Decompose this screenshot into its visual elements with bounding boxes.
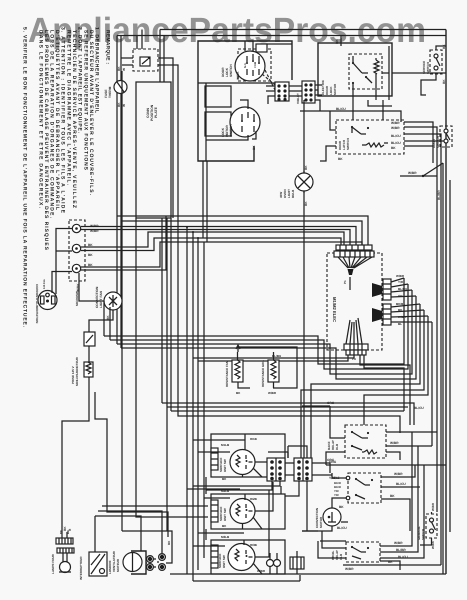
svg-text:LAMPE FOUR: LAMPE FOUR bbox=[51, 553, 55, 574]
grid connector C5 bbox=[294, 458, 312, 481]
svg-text:SWITCH: SWITCH bbox=[229, 64, 233, 77]
svg-text:BL/BR: BL/BR bbox=[437, 190, 441, 200]
burner unit 3 box bbox=[211, 540, 285, 574]
svg-text:BK: BK bbox=[222, 524, 227, 528]
wire fan bottom to fuse chain bbox=[89, 310, 113, 332]
wire bottom runs right bbox=[302, 531, 441, 565]
svg-text:THERM: THERM bbox=[108, 86, 112, 98]
svg-text:Y/15: Y/15 bbox=[329, 476, 336, 480]
svg-text:BK: BK bbox=[335, 39, 339, 44]
svg-text:RESISTANCE FAN: RESISTANCE FAN bbox=[225, 361, 229, 387]
svg-text:DANS LE FONCTIONNEMENT ET ETRE: DANS LE FONCTIONNEMENT ET ETRE DANGEREUX… bbox=[38, 30, 44, 209]
gradual wires bbox=[420, 512, 432, 545]
wire sweep a bbox=[104, 278, 404, 364]
wire left main L2 riser bbox=[120, 36, 122, 349]
resistor loop box bbox=[238, 347, 297, 388]
svg-text:W/BR: W/BR bbox=[431, 502, 435, 511]
terminal circle T3 bbox=[72, 264, 80, 272]
svg-text:W/BR: W/BR bbox=[391, 126, 400, 130]
wire staircase y505-516 bbox=[95, 506, 208, 553]
svg-text:BL/CU: BL/CU bbox=[396, 482, 406, 486]
svg-text:SWITCH: SWITCH bbox=[436, 136, 440, 148]
P3 fan wires bbox=[391, 304, 432, 322]
svg-text:5. VERIFIER LE BON FONCTIONNEM: 5. VERIFIER LE BON FONCTIONNEMENT DE L'A… bbox=[22, 27, 28, 328]
R2 wires left bbox=[332, 473, 346, 508]
P3 arrow mark bbox=[372, 308, 382, 322]
svg-text:BL/BR: BL/BR bbox=[396, 548, 406, 552]
svg-text:MOTOR: MOTOR bbox=[333, 83, 337, 95]
P2 arrow mark bbox=[372, 283, 382, 297]
top-right switch S1 bbox=[430, 50, 442, 74]
wire P3 nest returns bbox=[301, 304, 432, 458]
D2 contacts bbox=[351, 126, 353, 128]
wire mid bundle y403-411 right ends bbox=[162, 403, 414, 425]
wire T1 lines right bbox=[81, 227, 356, 247]
wire box A inner riser bbox=[205, 83, 207, 161]
wire riser x122 long bbox=[121, 71, 123, 531]
box B inner dashed relay bbox=[349, 54, 382, 89]
D2 resistor bbox=[362, 143, 388, 147]
svg-text:UNIT SW: UNIT SW bbox=[223, 459, 227, 472]
wire box A bottom risers bbox=[203, 161, 207, 242]
wire chain down to plug bbox=[62, 377, 89, 538]
resistor RES1 (fan resistance) bbox=[232, 360, 243, 382]
terminal circle T1 bbox=[72, 224, 80, 232]
burner unit 2 box bbox=[211, 494, 285, 529]
wire chain stub bbox=[88, 346, 90, 362]
svg-text:W/BK: W/BK bbox=[76, 283, 80, 292]
relay R1 (bake relay) dashed bbox=[345, 425, 386, 458]
svg-text:W/BR: W/BR bbox=[345, 567, 354, 571]
svg-text:BK: BK bbox=[388, 560, 393, 564]
wire bottom main bus bbox=[170, 574, 446, 581]
right edge switch S2 bbox=[440, 126, 452, 147]
wire bundle verticals bbox=[187, 227, 204, 581]
P2 fan wires bbox=[391, 278, 416, 297]
wire long run y111 bbox=[300, 111, 401, 122]
convection fan motor bbox=[104, 292, 122, 310]
svg-text:UNIT SW: UNIT SW bbox=[222, 555, 226, 568]
box B resistor bbox=[374, 58, 379, 88]
svg-text:SWITCH: SWITCH bbox=[229, 124, 233, 137]
svg-text:M1/M2 ELEC: M1/M2 ELEC bbox=[332, 297, 337, 322]
wire y406 run bbox=[302, 405, 330, 407]
svg-text:BK: BK bbox=[236, 391, 241, 395]
oven lamp assembly bbox=[56, 538, 73, 544]
wire bus drops to plate bbox=[137, 30, 164, 83]
wire S1 connections bbox=[421, 46, 446, 95]
burner1 wires bbox=[243, 434, 269, 477]
svg-text:BL/BU: BL/BU bbox=[272, 354, 281, 358]
svg-text:HI1B: HI1B bbox=[250, 437, 258, 441]
wire bundle turn x121 bbox=[121, 221, 362, 246]
svg-text:SWITCH: SWITCH bbox=[426, 62, 430, 74]
box A inner stacked rects bbox=[205, 86, 231, 107]
R2 wires right bbox=[381, 465, 420, 531]
terminal pair 1 bbox=[148, 557, 152, 561]
connector C1 bbox=[275, 82, 289, 101]
svg-text:BL/CU: BL/CU bbox=[336, 107, 346, 111]
svg-text:ORG: ORG bbox=[327, 458, 335, 462]
svg-text:N.O.: N.O. bbox=[244, 62, 247, 68]
wire D1 left stubs bbox=[121, 58, 133, 65]
micro switch box bbox=[84, 332, 95, 346]
svg-text:W/BR: W/BR bbox=[408, 171, 417, 175]
svg-text:MOTOR: MOTOR bbox=[319, 516, 323, 528]
svg-text:W/BR: W/BR bbox=[268, 391, 277, 395]
wire box B bottoms bbox=[353, 88, 392, 120]
fuse 125V zigzag bbox=[84, 362, 93, 377]
svg-text:P1: P1 bbox=[343, 280, 347, 284]
svg-text:W/BR: W/BR bbox=[394, 472, 403, 476]
fuse F1 circle bbox=[114, 81, 127, 94]
connector position plate rect bbox=[136, 82, 171, 218]
wire C1 to C2 bbox=[289, 86, 302, 96]
board side connector P3 bbox=[383, 304, 391, 325]
burner2 wires bbox=[243, 482, 274, 529]
svg-text:Y/R: Y/R bbox=[334, 493, 339, 497]
wire U2 top/bottom bbox=[206, 100, 256, 140]
box B contacts bbox=[352, 56, 354, 91]
oven light bulb bbox=[295, 173, 313, 191]
box B outline (oven relay box) bbox=[318, 43, 392, 96]
door lock switch dashed frame bbox=[238, 49, 271, 81]
svg-text:CORDON D'ALIMENTATION: CORDON D'ALIMENTATION bbox=[35, 284, 39, 323]
svg-text:BL: BL bbox=[398, 322, 402, 326]
grid connector C4 bbox=[267, 458, 285, 481]
C4 C5 bottom wires bbox=[193, 481, 307, 531]
burner unit 1 box bbox=[211, 434, 285, 477]
R1 wires left bbox=[326, 406, 345, 465]
svg-text:Y/R: Y/R bbox=[398, 280, 404, 284]
svg-text:BL/CU: BL/CU bbox=[398, 555, 408, 559]
svg-text:BK: BK bbox=[391, 146, 396, 150]
wire left main L1 riser bbox=[116, 36, 118, 345]
svg-text:SWITCH: SWITCH bbox=[346, 138, 350, 150]
wire bundle turn x117 bbox=[117, 216, 368, 246]
wire risers right of plate bbox=[173, 82, 178, 218]
svg-text:DLB: DLB bbox=[335, 443, 339, 450]
svg-text:BL/CU: BL/CU bbox=[337, 526, 347, 530]
board top connector bbox=[336, 245, 372, 250]
svg-text:W/BR: W/BR bbox=[390, 441, 399, 445]
wire sweep c bbox=[117, 290, 412, 374]
svg-text:LIGHT FAN: LIGHT FAN bbox=[99, 290, 103, 308]
dashed box D2 (door latch relay) bbox=[336, 120, 404, 154]
wire T3 lines right bbox=[81, 216, 362, 270]
burner switch 2 bbox=[230, 499, 255, 524]
svg-text:BK: BK bbox=[339, 505, 344, 509]
svg-text:MICROSW: MICROSW bbox=[75, 291, 79, 306]
svg-text:VIOLET: VIOLET bbox=[296, 93, 300, 104]
wire box B to border bbox=[392, 72, 446, 74]
board bottom connector bbox=[344, 344, 368, 350]
svg-text:BK: BK bbox=[59, 530, 63, 534]
wire C1 left stubs bbox=[198, 83, 275, 104]
board top funnel bbox=[338, 257, 372, 268]
wire C2 right stubs to box B bbox=[315, 85, 322, 111]
wire box B right inner bbox=[382, 46, 389, 100]
terminal block dashed bbox=[69, 220, 85, 281]
board bottom funnel bbox=[346, 318, 362, 344]
junction dots on bundle bbox=[186, 226, 188, 228]
small caps mid-bottom bbox=[267, 560, 274, 567]
svg-text:MINI-DISJONCTEUR: MINI-DISJONCTEUR bbox=[75, 356, 79, 386]
door lock switch circle U1 bbox=[235, 51, 265, 81]
wire D2 right outputs bbox=[404, 122, 445, 176]
svg-text:BK: BK bbox=[167, 540, 171, 545]
wire T2 lines right with jog bbox=[81, 232, 344, 251]
wire U1 to connector C1 dashed bbox=[262, 70, 275, 90]
svg-text:HI2B: HI2B bbox=[250, 497, 258, 501]
burner switch 1 bbox=[230, 450, 255, 475]
svg-text:W: W bbox=[122, 68, 126, 71]
svg-text:HI3B: HI3B bbox=[250, 543, 258, 547]
wire U1 top to box bbox=[245, 41, 292, 51]
R3 wires left bbox=[318, 531, 346, 558]
board side connector P2 bbox=[383, 279, 391, 300]
burner switch 3 bbox=[228, 544, 255, 571]
oven light switch box bbox=[89, 552, 107, 576]
svg-text:W/BR: W/BR bbox=[391, 121, 400, 125]
svg-text:SWITCH: SWITCH bbox=[421, 529, 425, 540]
M2 wires bbox=[302, 522, 348, 531]
svg-text:BL/CU: BL/CU bbox=[414, 406, 424, 410]
svg-text:ORG: ORG bbox=[327, 401, 335, 405]
dashed box D1 (door switch) bbox=[133, 49, 158, 71]
svg-text:UNIT SW: UNIT SW bbox=[223, 508, 227, 521]
C4-C5 links bbox=[268, 452, 294, 475]
wire plug to terminals bbox=[52, 229, 72, 295]
board funnel blob bbox=[348, 269, 354, 275]
wire right verticals bbox=[437, 163, 450, 574]
svg-text:M3LB: M3LB bbox=[221, 535, 230, 539]
R3 wires right bbox=[380, 432, 424, 570]
wire sweep b bbox=[110, 284, 408, 369]
svg-text:W/BR: W/BR bbox=[396, 274, 405, 278]
svg-text:REMARQUE :: REMARQUE : bbox=[105, 30, 111, 64]
terminal pair 2 bbox=[160, 555, 164, 559]
C5 right wires bbox=[312, 463, 332, 475]
small box above circle1 bbox=[256, 44, 267, 52]
svg-text:BL/CU: BL/CU bbox=[391, 141, 401, 145]
wire D2 left riser bbox=[320, 111, 336, 161]
svg-text:W/BR: W/BR bbox=[394, 541, 403, 545]
wire plate bottom risers down bbox=[136, 218, 400, 531]
relay R3 dashed bbox=[346, 542, 380, 562]
wire fan riser bbox=[122, 531, 172, 563]
svg-text:W/BK: W/BK bbox=[398, 315, 407, 319]
gradual oven switch right bbox=[426, 514, 437, 538]
wire board bottom outputs bbox=[193, 355, 410, 425]
right border main bbox=[445, 30, 447, 575]
note text (French) rotated block bbox=[22, 27, 111, 328]
wire D1 right stubs bbox=[158, 58, 178, 82]
wire riser to C5 top bbox=[288, 446, 307, 458]
wire riser x107 bbox=[95, 392, 168, 537]
wire Y-join diagonal bbox=[400, 163, 443, 176]
door lock motor circle U2 bbox=[230, 107, 260, 137]
svg-text:COM: COM bbox=[254, 62, 257, 68]
svg-text:M1LB: M1LB bbox=[221, 443, 230, 447]
terminal circle T2 bbox=[72, 244, 80, 252]
svg-text:PLATE: PLATE bbox=[154, 106, 158, 118]
svg-text:RESISTANCE GRIL: RESISTANCE GRIL bbox=[261, 360, 265, 387]
svg-text:BK: BK bbox=[390, 494, 395, 498]
R1 wires right bbox=[386, 432, 437, 460]
wire box B top tap bbox=[340, 36, 342, 47]
resistor RES2 (grill resistance) bbox=[268, 360, 279, 382]
wire top bus upper bbox=[160, 29, 446, 31]
svg-text:BL/CU: BL/CU bbox=[391, 134, 401, 138]
svg-text:MOTEUR: MOTEUR bbox=[116, 558, 120, 572]
svg-text:BK: BK bbox=[117, 102, 121, 107]
svg-text:W/BK: W/BK bbox=[236, 71, 240, 80]
connector C2 bbox=[302, 81, 315, 103]
box A outline (latch control) bbox=[198, 41, 292, 161]
svg-text:BULB: BULB bbox=[291, 189, 295, 198]
wire bulb vertical bbox=[303, 100, 305, 462]
svg-text:BL/CU: BL/CU bbox=[398, 287, 407, 291]
power cord plug bbox=[38, 291, 57, 310]
svg-text:INTERRUPTEUR: INTERRUPTEUR bbox=[79, 556, 83, 580]
wire T3 drop to fan bbox=[79, 273, 104, 301]
wire top bus lower bbox=[117, 35, 446, 37]
svg-text:DLB: DLB bbox=[339, 553, 343, 560]
svg-text:BK: BK bbox=[338, 157, 343, 161]
wire sweep d bbox=[121, 296, 416, 379]
wire y465 ORG run bbox=[326, 464, 446, 466]
burner3 wires bbox=[244, 540, 269, 574]
svg-text:BK: BK bbox=[117, 66, 121, 71]
convection motor M2 bbox=[323, 508, 341, 526]
svg-text:FUSE: FUSE bbox=[104, 89, 108, 98]
svg-text:BK: BK bbox=[252, 145, 256, 150]
cooling fan motor bbox=[131, 551, 146, 574]
svg-text:BK: BK bbox=[88, 253, 93, 257]
wire sweep left risers bbox=[104, 301, 110, 340]
svg-text:125 15A: 125 15A bbox=[43, 279, 46, 289]
M1/M2 ELEC control board dashed box bbox=[327, 253, 382, 350]
relay R2 (broil relay) dashed bbox=[348, 473, 381, 503]
